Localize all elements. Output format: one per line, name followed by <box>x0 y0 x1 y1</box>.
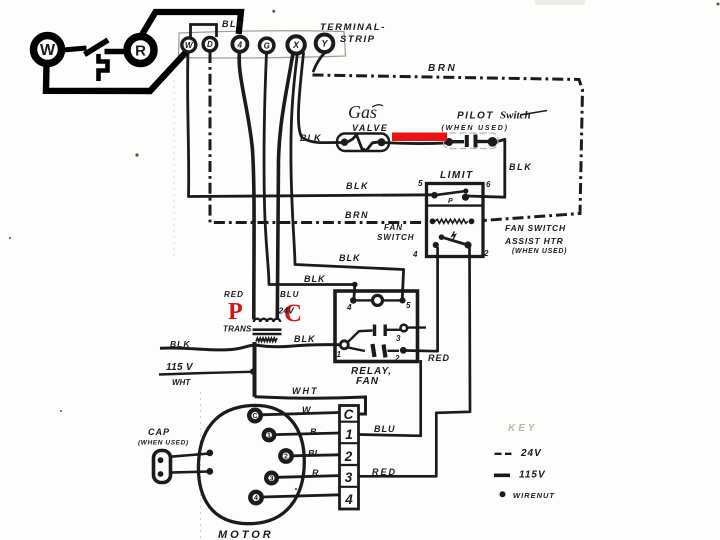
svg-text:LIMIT: LIMIT <box>440 170 474 181</box>
svg-text:BLK: BLK <box>304 274 326 284</box>
svg-text:115 V: 115 V <box>166 362 194 373</box>
svg-text:P: P <box>448 198 453 205</box>
svg-text:ASSIST HTR: ASSIST HTR <box>504 236 564 246</box>
svg-text:BLK: BLK <box>339 253 361 263</box>
svg-text:KEY: KEY <box>508 423 538 434</box>
svg-text:C: C <box>344 407 354 422</box>
svg-text:(WHEN USED): (WHEN USED) <box>138 440 189 447</box>
svg-text:5: 5 <box>418 179 423 188</box>
svg-text:3: 3 <box>270 476 274 483</box>
svg-text:BLK: BLK <box>346 181 369 191</box>
svg-text:24V: 24V <box>278 306 295 316</box>
svg-text:BLK: BLK <box>222 19 245 29</box>
svg-text:BLK: BLK <box>170 339 190 349</box>
svg-text:4: 4 <box>254 495 258 502</box>
svg-text:MOTOR: MOTOR <box>218 529 274 540</box>
svg-text:BRN: BRN <box>428 63 457 74</box>
svg-text:W: W <box>40 42 56 59</box>
svg-text:FAN SWITCH: FAN SWITCH <box>505 223 566 233</box>
svg-text:G: G <box>264 42 270 51</box>
svg-text:Gas: Gas <box>348 102 377 122</box>
svg-text:115V: 115V <box>519 470 546 481</box>
svg-text:X: X <box>292 40 300 50</box>
svg-text:1: 1 <box>267 433 271 440</box>
svg-text:D: D <box>207 40 213 49</box>
svg-text:BLK: BLK <box>300 133 322 143</box>
svg-text:FAN: FAN <box>384 223 403 232</box>
svg-text:BL: BL <box>308 449 320 459</box>
svg-text:1: 1 <box>345 427 353 442</box>
svg-text:R: R <box>312 468 319 478</box>
svg-text:6: 6 <box>486 180 491 189</box>
svg-text:BLK: BLK <box>294 334 316 344</box>
svg-text:CAP: CAP <box>148 427 170 437</box>
svg-text:4: 4 <box>344 492 353 507</box>
svg-text:RED: RED <box>372 467 397 477</box>
svg-text:C: C <box>252 413 257 420</box>
svg-text:1: 1 <box>337 350 342 359</box>
svg-text:B: B <box>310 427 317 437</box>
svg-text:TERMINAL-: TERMINAL- <box>320 22 386 33</box>
svg-text:BLK: BLK <box>509 162 532 172</box>
svg-text:SWITCH: SWITCH <box>377 233 415 242</box>
svg-text:P: P <box>228 299 243 325</box>
svg-text:2: 2 <box>344 449 353 464</box>
svg-text:4: 4 <box>412 250 418 259</box>
svg-text:4: 4 <box>346 303 352 312</box>
svg-text:4: 4 <box>237 41 243 50</box>
svg-text:PILOT: PILOT <box>457 111 494 122</box>
svg-text:VALVE: VALVE <box>352 123 388 133</box>
svg-text:R: R <box>135 43 146 60</box>
svg-text:24V: 24V <box>520 448 542 459</box>
svg-text:2: 2 <box>394 354 400 363</box>
svg-text:STRIP: STRIP <box>340 34 375 45</box>
svg-text:2: 2 <box>284 454 288 461</box>
svg-text:BLU: BLU <box>280 290 299 299</box>
svg-text:WHT: WHT <box>172 378 191 387</box>
svg-text:TRANS: TRANS <box>223 325 252 334</box>
svg-text:BLU: BLU <box>374 424 396 434</box>
svg-text:FAN: FAN <box>356 376 379 387</box>
svg-text:Y: Y <box>321 39 328 49</box>
svg-text:(WHEN USED): (WHEN USED) <box>512 248 567 255</box>
svg-text:WHT: WHT <box>292 386 319 396</box>
svg-text:BRN: BRN <box>345 210 369 220</box>
svg-text:3: 3 <box>396 334 401 343</box>
svg-text:WIRENUT: WIRENUT <box>513 491 555 500</box>
svg-text:RED: RED <box>224 290 244 299</box>
svg-text:5: 5 <box>406 301 411 310</box>
svg-text:3: 3 <box>345 470 353 485</box>
svg-text:(WHEN USED): (WHEN USED) <box>442 125 509 132</box>
svg-text:Switch: Switch <box>500 110 531 122</box>
svg-text:2: 2 <box>483 249 489 258</box>
svg-text:RED: RED <box>428 353 450 363</box>
